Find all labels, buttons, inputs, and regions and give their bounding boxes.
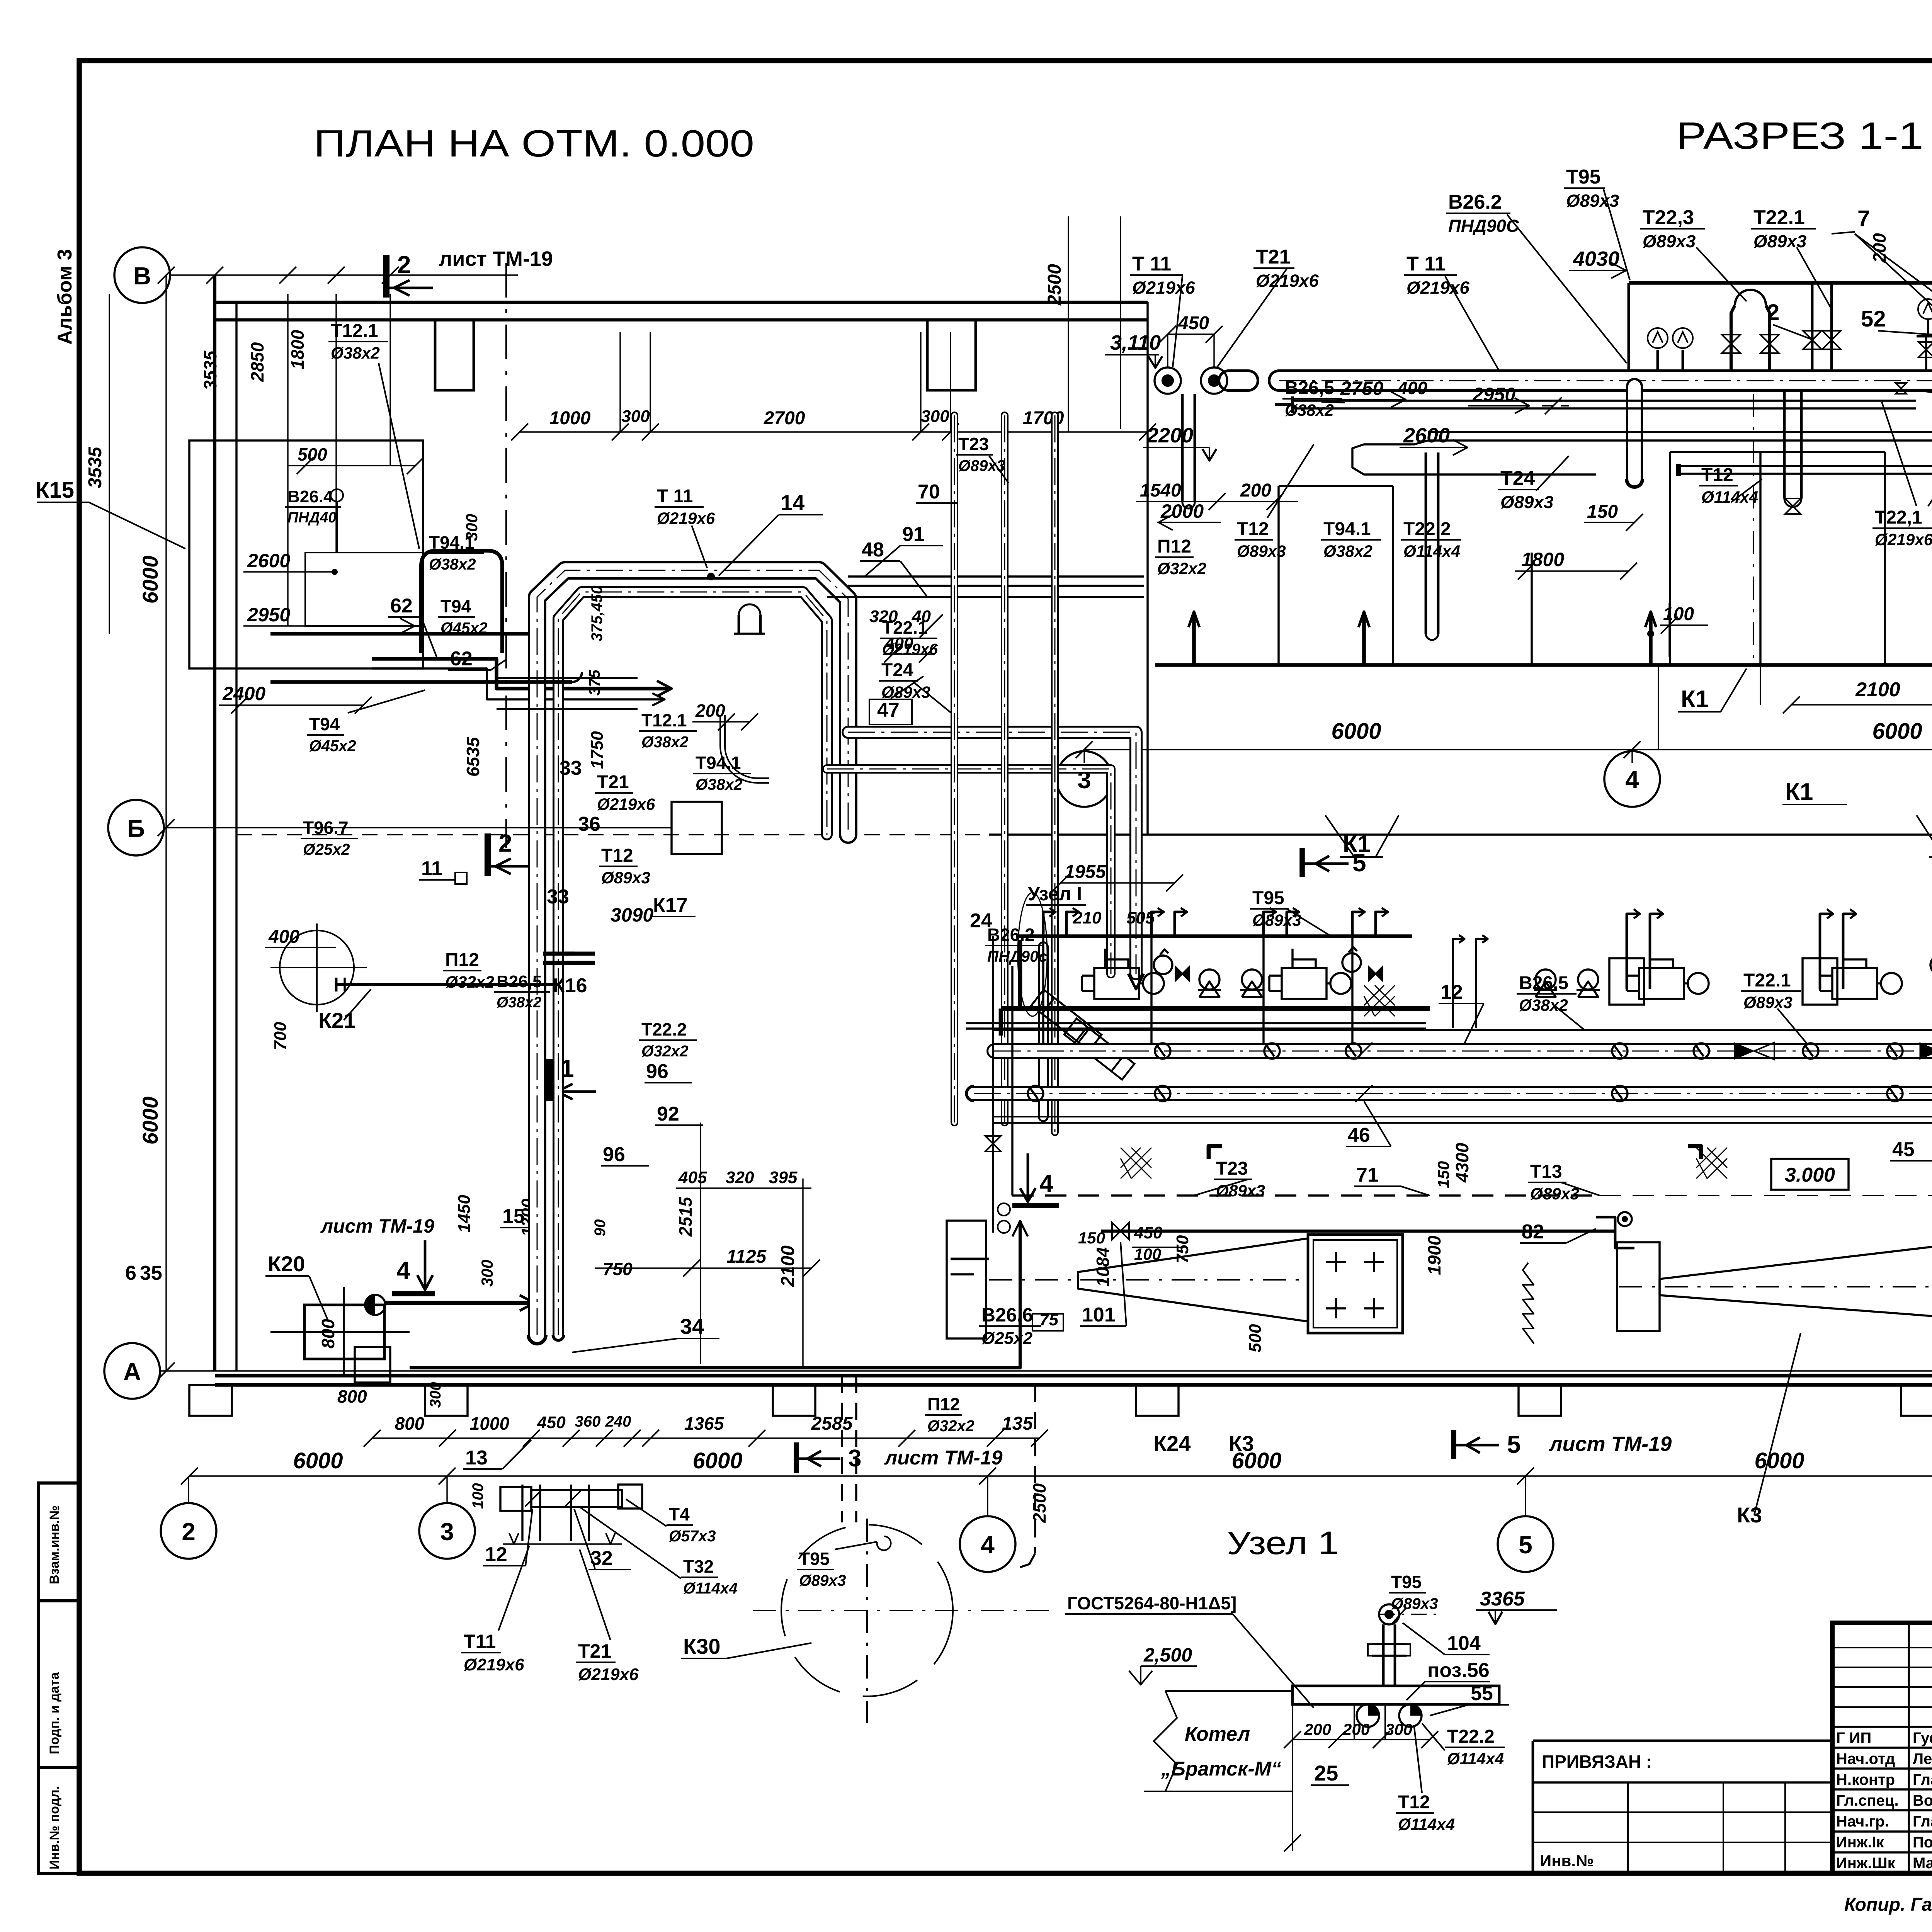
svg-text:Ø219х6: Ø219х6 [464,1655,524,1674]
svg-text:3: 3 [848,1445,861,1472]
svg-text:2,500: 2,500 [1143,1644,1192,1666]
svg-text:Т95: Т95 [1391,1572,1422,1592]
svg-text:2950: 2950 [1472,384,1515,405]
svg-text:700: 700 [271,1022,290,1050]
svg-text:Волкова: Волкова [1913,1792,1932,1809]
T4 bracket right [618,1485,642,1509]
drop pipes into pits with U-bends [1783,392,1786,498]
svg-text:К17: К17 [653,894,688,917]
pipe B26.2 [1038,947,1049,1117]
svg-text:6000: 6000 [1872,719,1922,744]
svg-text:4: 4 [1039,1170,1053,1197]
riser connections drop to runs [1042,936,1044,1043]
svg-text:Ø219х6: Ø219х6 [578,1665,639,1684]
gauges trio 7 [1918,299,1932,319]
lower plan walls [993,1116,1932,1117]
svg-text:Инж.Iк: Инж.Iк [1836,1834,1884,1851]
svg-text:6: 6 [125,1262,136,1284]
svg-text:Ø89х3: Ø89х3 [1566,191,1619,211]
label T22.1 lower [1741,970,1801,1012]
label T11 bottom [461,1631,524,1674]
svg-text:46: 46 [1348,1124,1370,1146]
extension line [650,332,651,432]
svg-text:91: 91 [902,523,925,546]
axis circle 4 [960,1516,1015,1572]
svg-text:Ø89х3: Ø89х3 [1530,1185,1579,1203]
svg-text:Т22,1: Т22,1 [1875,507,1922,528]
section line 2-2 [505,263,507,848]
pump circle K20 [365,1295,385,1315]
svg-text:300: 300 [621,407,650,426]
svg-text:14: 14 [781,490,804,515]
pipe from K20 [384,1301,531,1305]
label T95 uzel [1389,1572,1438,1612]
pipe riser vertical [1051,415,1059,1132]
pump unit [1639,968,1684,999]
label T12 sect [1235,519,1286,560]
svg-text:ПНД40: ПНД40 [287,509,337,526]
svg-text:1000: 1000 [470,1413,510,1434]
svg-text:Ø32х2: Ø32х2 [641,1042,689,1060]
label B26.2 plan [985,925,1047,965]
svg-text:2950: 2950 [247,604,290,626]
right risers manifold stubs [1627,914,1638,989]
svg-text:3,110: 3,110 [1110,331,1161,354]
gauge circle pump [1930,956,1932,974]
label T11 sect [1130,253,1195,298]
svg-text:Б: Б [127,815,145,842]
signature table rows [1832,1647,1932,1648]
plan: lower room outline [989,833,1932,835]
svg-text:Г ИП: Г ИП [1836,1730,1871,1747]
pipe T94 extra 1 [497,677,638,679]
svg-text:320: 320 [869,607,898,626]
svg-text:2515: 2515 [675,1196,696,1237]
svg-text:150: 150 [1078,1229,1105,1247]
svg-text:Ø114х4: Ø114х4 [683,1579,738,1597]
svg-text:12: 12 [1440,981,1463,1003]
svg-text:Т 11: Т 11 [657,486,693,507]
svg-text:В26.4: В26.4 [287,487,333,506]
svg-text:450: 450 [537,1413,566,1432]
svg-text:Ø89х3: Ø89х3 [601,869,650,887]
manifold pipe [1629,281,1932,285]
section 1-1 floor line [1155,663,1932,667]
extension line x2900 [1120,216,1121,429]
svg-text:2000: 2000 [1160,500,1204,522]
svg-text:К3: К3 [1229,1431,1254,1456]
svg-text:750: 750 [603,1259,633,1279]
wall column stub top2 [927,320,976,390]
funnel duct left [1078,1238,1308,1321]
svg-text:6000: 6000 [692,1448,742,1473]
label T96.7 [301,818,358,858]
axis circle Б [108,800,164,855]
svg-text:Т94: Т94 [309,714,340,734]
svg-text:Ø38х2: Ø38х2 [429,555,476,573]
svg-text:2: 2 [397,251,411,279]
svg-text:П12: П12 [445,950,479,970]
axis circle 3 [419,1503,475,1559]
pipe elbow drop [1626,386,1643,479]
svg-text:Т 11: Т 11 [1132,253,1171,275]
valve in plan [1112,1223,1129,1240]
pipe y1765 [270,680,572,684]
pipe thin y1545 [827,596,1144,598]
svg-text:Т13: Т13 [1530,1162,1562,1182]
svg-text:101: 101 [1082,1304,1116,1326]
svg-text:320: 320 [726,1168,754,1187]
pipe T21 arch [558,592,827,1335]
svg-text:Т32: Т32 [683,1556,714,1577]
svg-text:210: 210 [1073,908,1102,927]
svg-text:1450: 1450 [455,1195,474,1233]
svg-text:Ø25х2: Ø25х2 [981,1329,1033,1348]
svg-text:6000: 6000 [1331,719,1381,744]
valve seat circle [1578,969,1598,990]
pipe T24 plan run [827,769,1111,974]
svg-text:200: 200 [1240,480,1271,501]
svg-text:Т23: Т23 [1216,1158,1248,1179]
svg-text:Альбом 3: Альбом 3 [54,249,76,345]
svg-text:Т22,3: Т22,3 [1643,206,1694,229]
svg-text:2200: 2200 [1146,424,1193,447]
svg-text:П12: П12 [1157,536,1191,557]
svg-text:Ø89х3: Ø89х3 [881,683,930,701]
svg-text:450: 450 [1178,313,1209,333]
svg-text:Т12: Т12 [1237,519,1269,539]
svg-text:Ø89х3: Ø89х3 [1743,993,1793,1012]
svg-text:ГОСТ5264-80-Н1Δ5]: ГОСТ5264-80-Н1Δ5] [1067,1593,1236,1613]
svg-text:Т12: Т12 [601,845,633,866]
svg-text:2850: 2850 [247,342,267,382]
label T22.3 [1640,206,1705,251]
pipe T22.1 plan [848,732,1136,974]
svg-text:Т24: Т24 [1500,467,1535,490]
svg-text:150: 150 [1587,502,1618,522]
svg-text:Инв.№ подл.: Инв.№ подл. [47,1786,62,1869]
funnel duct right [1660,1238,1932,1321]
springs [1523,1263,1534,1343]
label T21 plan [595,772,655,813]
extension line [619,332,621,432]
svg-text:Ø89х3: Ø89х3 [1237,542,1286,560]
boiler unit 2 [1308,1235,1403,1333]
mark 4 down near plan center [1027,1153,1029,1200]
svg-text:Ø89х3: Ø89х3 [1216,1182,1265,1200]
pedestal under riser [355,1347,390,1383]
svg-text:4300: 4300 [1452,1143,1472,1183]
label T11 plan [655,486,715,527]
svg-text:4030: 4030 [1573,247,1619,270]
svg-text:33: 33 [547,886,569,908]
pipe T13 solid [1101,1230,1615,1233]
svg-text:2: 2 [182,1518,196,1546]
left cluster of lower plan (valves/small pipes) [992,936,994,1233]
svg-text:6000: 6000 [293,1448,343,1473]
label T22.2 uzel [1445,1726,1505,1768]
mark 5 mid [1299,848,1305,877]
svg-text:400: 400 [268,927,299,947]
label T94.1 plan [427,532,484,573]
left margin stamp boxes [39,1483,79,1873]
equipment small box [1609,958,1644,1005]
axis circle 5 [1498,1516,1553,1572]
svg-text:Подп. и дата: Подп. и дата [47,1672,62,1754]
pump unit [1094,968,1139,999]
svg-text:Нач.гр.: Нач.гр. [1836,1813,1889,1830]
pipe T11 arch [537,570,848,1335]
svg-text:К20: К20 [268,1252,305,1276]
label T32 [681,1556,738,1597]
svg-text:Т 11: Т 11 [1406,253,1446,275]
svg-text:Т22.1: Т22.1 [1743,970,1791,991]
svg-text:3: 3 [440,1518,454,1546]
svg-text:3090: 3090 [611,904,653,926]
svg-text:Инв.№: Инв.№ [1540,1852,1594,1870]
svg-text:лист ТМ-19: лист ТМ-19 [1548,1432,1672,1456]
svg-text:375,450: 375,450 [588,585,605,641]
pipe T95 dashed down [841,1376,843,1522]
svg-text:Т22.2: Т22.2 [641,1019,687,1039]
svg-text:Гусева: Гусева [1913,1730,1932,1747]
pipe P12 bottom [410,1221,1020,1368]
label T24 sect [1498,467,1553,512]
flow valves on runs [1734,1043,1754,1060]
svg-text:1084: 1084 [1093,1247,1113,1287]
left pit walls [1277,486,1279,665]
svg-text:1365: 1365 [684,1413,724,1434]
pipe stub left [1229,369,1248,392]
svg-text:Ø89х3: Ø89х3 [1643,231,1696,251]
valve seat circle [1242,969,1262,990]
wall column stub bottom [425,1385,468,1416]
svg-text:2700: 2700 [764,408,805,429]
svg-text:поз.56: поз.56 [1427,1659,1490,1682]
label T94.1 mid [693,753,751,793]
svg-text:Ø32х2: Ø32х2 [1157,560,1206,578]
break line uzel [1154,1691,1177,1791]
T4 bracket left [500,1487,531,1511]
label B26.5 sect [1282,378,1342,419]
svg-text:200: 200 [1304,1720,1331,1738]
svg-text:Ø219х6: Ø219х6 [1406,278,1469,298]
T4 bar [531,1490,622,1507]
svg-text:Т12.1: Т12.1 [641,710,687,730]
wall column stub bottom [1519,1385,1561,1416]
svg-text:2600: 2600 [1403,424,1450,447]
svg-text:Ø57х3: Ø57х3 [669,1527,716,1545]
svg-text:Т94: Т94 [440,596,471,616]
svg-text:1000: 1000 [549,408,591,429]
svg-text:52: 52 [1861,306,1886,332]
svg-text:Т95: Т95 [799,1549,830,1569]
svg-text:2585: 2585 [811,1413,853,1434]
risers cluster 2 [1811,283,1814,371]
svg-text:Гл.спец.: Гл.спец. [1836,1792,1899,1809]
svg-text:1800: 1800 [287,330,308,369]
pipe stub omega [738,615,740,634]
svg-text:Т21: Т21 [578,1640,611,1662]
hatch marks [1121,1148,1151,1179]
uzel1: stand [1382,1624,1385,1686]
svg-text:Гладикова: Гладикова [1913,1813,1932,1830]
svg-text:240: 240 [605,1413,631,1430]
svg-text:Н.контр: Н.контр [1836,1771,1895,1788]
svg-text:1800: 1800 [1521,549,1564,570]
svg-text:Ø38х2: Ø38х2 [696,776,743,793]
svg-text:Ø38х2: Ø38х2 [641,733,689,751]
svg-text:К15: К15 [36,478,74,503]
svg-text:Ø89х3: Ø89х3 [958,457,1005,474]
svg-text:К1: К1 [1785,779,1813,805]
axis line А [160,1370,1932,1371]
svg-text:Ø38х2: Ø38х2 [331,344,380,362]
svg-text:К24: К24 [1153,1431,1190,1456]
svg-text:48: 48 [862,539,884,561]
svg-text:13: 13 [465,1447,488,1469]
label T23 riser [956,434,1005,474]
label T4 [667,1504,716,1545]
wall column stub bottom [1901,1385,1932,1416]
corner angle marks [1209,1146,1222,1159]
svg-text:„Братск-М“: „Братск-М“ [1161,1758,1281,1780]
svg-text:Ø114х4: Ø114х4 [1447,1750,1504,1768]
svg-text:Т12.1: Т12.1 [331,321,378,341]
svg-text:2100: 2100 [778,1245,798,1287]
svg-text:Т95: Т95 [1252,888,1284,908]
svg-text:Т21: Т21 [1256,246,1291,268]
svg-text:Ø219х6: Ø219х6 [657,509,715,527]
svg-text:Узел 1: Узел 1 [1227,1525,1339,1561]
svg-text:Т94.1: Т94.1 [1323,519,1371,539]
svg-text:36: 36 [578,813,600,835]
svg-text:4: 4 [981,1531,995,1559]
svg-text:800: 800 [337,1386,367,1406]
svg-text:Т95: Т95 [1566,166,1601,188]
svg-text:Ø114х4: Ø114х4 [1398,1815,1455,1833]
svg-text:К21: К21 [318,1008,355,1032]
gauge circle pump [1154,956,1172,974]
label T21 sect [1253,246,1319,291]
duct box 3 [1617,1242,1660,1331]
pipe run 2 lower plan [974,1086,1932,1101]
svg-text:ПНД90С: ПНД90С [1448,216,1519,236]
thick pipe loop T12.1 [421,551,502,653]
svg-text:15: 15 [502,1205,525,1228]
plan: left outer wall [213,275,216,1371]
label T94.1 sect [1321,519,1381,560]
svg-text:Т21: Т21 [597,772,629,793]
section mark 2 bottom [488,829,534,876]
svg-text:Лепендин: Лепендин [1913,1750,1932,1767]
svg-text:Ø89х3: Ø89х3 [1753,231,1806,251]
label T22.1 pit [1872,507,1932,549]
P12 dashed pipe down [1034,1385,1036,1553]
svg-text:6000: 6000 [138,556,162,604]
big dashed circle K30 [781,1525,953,1696]
svg-text:Взам.инв.№: Взам.инв.№ [47,1505,62,1584]
dims 2100 2450 [1791,704,1932,705]
flag 3 list TM-19 bottom [794,1442,799,1473]
svg-text:400: 400 [1397,378,1427,398]
label P12 plan [443,950,494,991]
svg-text:Гладикова: Гладикова [1913,1771,1932,1788]
svg-text:ПРИВЯЗАН :: ПРИВЯЗАН : [1542,1752,1652,1772]
uzel pipe T12 [1399,1704,1422,1727]
duct box 1 [947,1221,986,1338]
pipe T11/T21 main run section [1279,369,1932,392]
svg-text:Марухина: Марухина [1913,1855,1932,1872]
svg-text:Т22.2: Т22.2 [1447,1726,1495,1747]
svg-text:71: 71 [1356,1164,1379,1186]
below-floor pit walls [1669,452,1671,665]
uzel pipe T22.2 [1357,1704,1379,1727]
svg-text:Т23: Т23 [958,434,989,454]
svg-text:РАЗРЕЗ 1-1: РАЗРЕЗ 1-1 [1676,114,1923,157]
svg-text:45: 45 [1892,1138,1915,1161]
svg-text:4: 4 [396,1257,410,1284]
pump unit [1832,968,1877,999]
label B26.2 [1446,191,1519,236]
svg-text:395: 395 [769,1168,798,1187]
axis circle 3 [1056,751,1112,807]
svg-text:2500: 2500 [1029,1483,1049,1523]
level 2500 [1129,1644,1197,1685]
dim row top right of plan [520,431,1148,432]
wall column stub bottom [189,1385,232,1416]
svg-text:200: 200 [695,701,725,721]
svg-text:1750: 1750 [588,731,607,769]
drop U-cap [1626,479,1643,488]
svg-text:Ø114х4: Ø114х4 [1701,488,1758,506]
svg-text:100: 100 [1663,604,1694,624]
U-caps bottom of arch legs [528,1335,546,1344]
svg-text:200: 200 [1342,1720,1370,1738]
svg-text:24: 24 [970,910,992,932]
svg-text:7: 7 [1857,206,1870,231]
svg-text:Инж.Шк: Инж.Шк [1836,1855,1896,1872]
label P12 under wall [925,1394,975,1435]
svg-text:135: 135 [1002,1413,1033,1434]
arrows up at floor [1192,612,1196,665]
title block outer [1832,1623,1932,1873]
svg-text:800: 800 [318,1319,338,1349]
extension line [920,332,921,432]
equipment box at B axis [672,802,722,854]
svg-text:Узел I: Узел I [1028,883,1082,905]
svg-text:500: 500 [1246,1324,1265,1352]
svg-text:Т22.2: Т22.2 [1403,519,1451,539]
svg-text:33: 33 [560,757,582,779]
axis line Б [164,827,520,828]
loop arc T22.3 [1731,305,1735,371]
room K15 outline [189,440,423,668]
label T22.1 sect [1751,206,1816,251]
svg-text:Ø45х2: Ø45х2 [309,737,356,755]
axis circle 4 [1604,751,1660,807]
svg-text:В26.5: В26.5 [1519,973,1568,993]
svg-text:2750: 2750 [1340,378,1383,399]
svg-text:Котел: Котел [1185,1723,1250,1745]
label T95 sect [1564,166,1619,211]
svg-text:3.000: 3.000 [1785,1164,1835,1186]
small dim chain above bottom line [372,1437,1039,1439]
label T94 plan [438,596,488,637]
svg-text:5: 5 [1519,1531,1532,1559]
pipe thin y1492 [848,575,1144,577]
svg-text:лист ТМ-19: лист ТМ-19 [439,247,553,270]
